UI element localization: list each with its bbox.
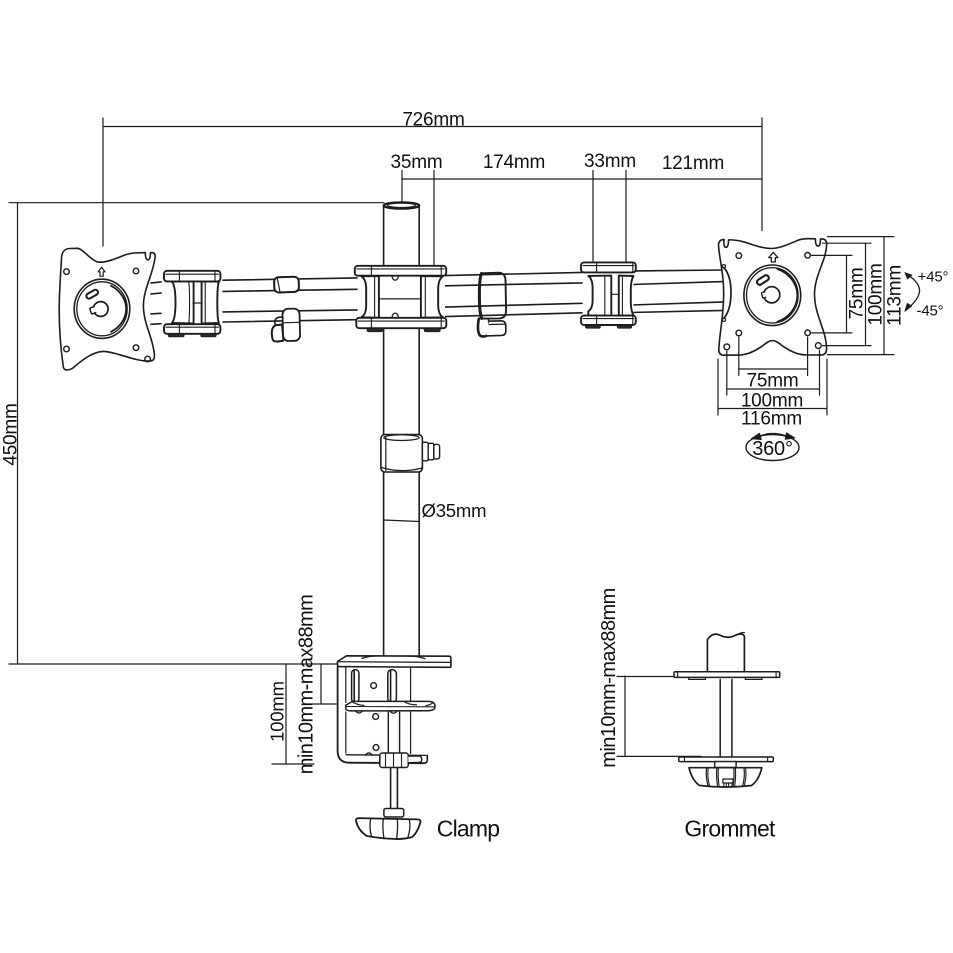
right VESA plate: [719, 239, 827, 356]
svg-text:726mm: 726mm: [402, 110, 464, 131]
clamp wing knob bowl: [356, 818, 421, 839]
right plate ball housing edge: [724, 268, 731, 319]
dimension 726mm right tick: [761, 118, 763, 231]
pole seam line: [384, 520, 420, 522]
360 degree rotation ellipse: [746, 433, 799, 461]
right plate slot: [756, 274, 770, 286]
clamp min-max dimension vertical: [320, 664, 322, 704]
svg-text:121mm: 121mm: [662, 153, 724, 174]
clamp screw nut on bottom arm: [366, 753, 373, 755]
svg-text:Grommet: Grommet: [684, 815, 776, 841]
grommet neck block: [715, 762, 736, 768]
left plate swivel circle: [74, 279, 130, 338]
svg-text:100mm: 100mm: [866, 263, 887, 325]
svg-text:-45°: -45°: [917, 303, 944, 320]
right plate swivel circle: [744, 265, 801, 326]
tick 33mm left: [592, 171, 594, 263]
svg-text:Clamp: Clamp: [437, 815, 499, 841]
right plate screw holes: [736, 253, 742, 259]
clamp min-max bottom bar: [313, 703, 336, 705]
dimension 726mm left tick: [102, 118, 104, 246]
grommet top plate: [674, 672, 780, 678]
left plate slot: [85, 289, 99, 300]
cable clip lower left with hook: [272, 308, 300, 341]
arm tube section center-to-right-elbow: [445, 272, 582, 316]
svg-text:100mm: 100mm: [267, 681, 288, 742]
below-plate 75mm dim: [738, 337, 740, 376]
svg-text:Ø35mm: Ø35mm: [422, 500, 487, 521]
dimension 450mm vertical line: [17, 203, 19, 664]
left elbow joint: [164, 271, 220, 337]
tick 33mm right: [625, 171, 627, 263]
dimension 450mm bottom reference line (desk level): [9, 663, 337, 665]
grommet bottom plate: [679, 757, 774, 762]
clamp C-bracket: [338, 667, 424, 763]
arm tube section left-elbow-to-center: [223, 278, 357, 322]
tick 35mm left: [401, 171, 403, 204]
svg-text:174mm: 174mm: [483, 152, 545, 173]
center pole joint: [355, 266, 447, 332]
cable clip right with hook: [478, 273, 506, 337]
clamp middle shelf: [346, 701, 435, 711]
clamp top plate: [337, 656, 450, 668]
svg-text:75mm: 75mm: [847, 268, 868, 320]
clamp screw rod lower: [390, 768, 392, 809]
clamp screw rod upper: [387, 712, 389, 753]
clamp 100mm bottom bar: [272, 763, 314, 765]
svg-text:450mm: 450mm: [1, 403, 22, 465]
right plate arrow up: [769, 252, 778, 262]
tick 35mm right: [433, 171, 435, 266]
dimension second row line: [402, 178, 762, 180]
svg-text:33mm: 33mm: [584, 151, 636, 172]
left plate screw holes: [64, 269, 70, 275]
arm tube section plate-to-left-elbow: [151, 282, 161, 324]
dimension 450mm top reference line: [9, 202, 384, 204]
left plate center hole: [93, 302, 108, 317]
right plate center hole: [764, 287, 780, 303]
grommet assembly: [674, 632, 780, 787]
grommet dimension bottom bar: [617, 755, 701, 757]
clamp slots: [352, 670, 359, 703]
grommet plate tabs: [689, 678, 706, 680]
dimension 726mm line: [103, 126, 762, 128]
svg-text:113mm: 113mm: [885, 265, 906, 326]
svg-text:116mm: 116mm: [741, 409, 802, 430]
clamp 100mm dimension vertical: [285, 664, 287, 764]
grommet pole stub: [707, 634, 744, 671]
svg-text:75mm: 75mm: [747, 371, 799, 392]
clamp holes: [371, 683, 377, 689]
cable clip upper left: [274, 277, 299, 293]
left VESA plate: [59, 248, 155, 370]
below-plate 100mm dim: [726, 351, 728, 395]
grommet dimension top bar: [617, 676, 701, 678]
pole body: [384, 202, 420, 656]
right plate dimension extension lines: [718, 237, 894, 415]
grommet rod: [719, 679, 721, 756]
desk clamp assembly: [337, 656, 450, 839]
svg-text:min10mm-max88mm: min10mm-max88mm: [296, 595, 318, 775]
svg-text:35mm: 35mm: [391, 152, 443, 173]
arm tube section right-elbow-to-plate: [634, 270, 724, 312]
svg-text:min10mm-max88mm: min10mm-max88mm: [598, 588, 620, 768]
right elbow joint: [581, 262, 636, 328]
below-plate 116mm dim: [717, 359, 719, 415]
left plate arrow up: [98, 267, 105, 276]
+/-45 degree tilt arc: [905, 273, 920, 312]
grommet wing bowl: [689, 768, 762, 787]
grommet dimension vertical: [624, 676, 626, 757]
clamp knob collar: [384, 809, 404, 818]
pole collar with knob: [381, 435, 440, 473]
svg-text:360°: 360°: [752, 438, 793, 460]
svg-text:+45°: +45°: [918, 269, 949, 286]
